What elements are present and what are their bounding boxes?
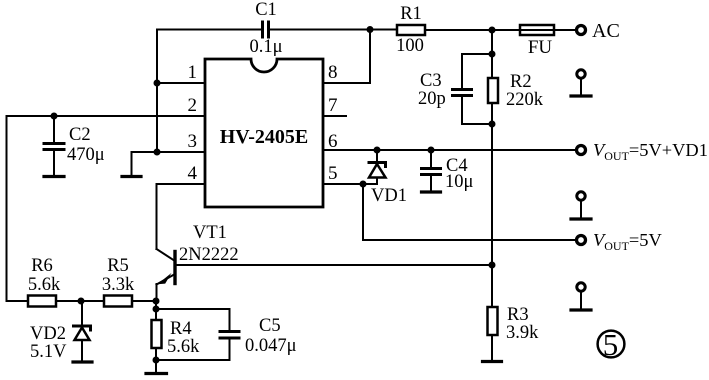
wire C3 bottom (462, 97, 492, 124)
capacitor C4 (422, 150, 441, 191)
svg-text:7: 7 (328, 95, 338, 116)
wire 5V rail down (363, 184, 575, 240)
junction pin1 (154, 80, 161, 87)
svg-text:0.047μ: 0.047μ (245, 336, 297, 356)
svg-text:3.9k: 3.9k (506, 323, 539, 343)
resistor R5 (104, 296, 132, 307)
svg-text:8: 8 (328, 62, 338, 83)
junction R1 wire / R2 rail (489, 27, 496, 34)
svg-text:4: 4 (188, 163, 198, 184)
capacitor C2 (44, 116, 64, 175)
svg-text:C3: C3 (420, 71, 442, 91)
fuse FU (520, 25, 554, 35)
wire top from rail to C1 left plate (157, 29, 260, 31)
wire R2 bottom lead (491, 103, 493, 124)
wire R5 to emitter (132, 300, 156, 302)
wire R3 bottom lead (491, 335, 493, 360)
wire pin8 rail (323, 30, 370, 84)
wire pin4 (157, 184, 206, 249)
svg-text:5: 5 (328, 163, 338, 184)
capacitor C3 (453, 90, 472, 96)
svg-text:R5: R5 (107, 256, 129, 276)
resistor R4 (152, 320, 162, 348)
junction C2 top (51, 113, 58, 120)
svg-text:R6: R6 (31, 256, 53, 276)
wire R4 ground lead (155, 360, 157, 373)
ground C4 (422, 190, 441, 193)
wire left rail (7, 116, 29, 301)
svg-text:2N2222: 2N2222 (179, 245, 239, 265)
junction base wire / R3 rail (489, 262, 496, 269)
wire base to R3 rail (176, 264, 492, 266)
figure number 5 circle (598, 331, 625, 358)
svg-text:VD2: VD2 (30, 324, 66, 344)
junction pin5 / 5V rail (360, 181, 367, 188)
terminal jack upper (571, 70, 591, 96)
ground C2 (44, 175, 64, 178)
svg-text:R4: R4 (170, 319, 192, 339)
svg-text:3: 3 (188, 131, 198, 152)
resistor R1 (397, 25, 425, 35)
svg-text:2: 2 (188, 95, 198, 116)
wire pin7 stub (323, 115, 346, 117)
diode VD1 zener (369, 150, 386, 184)
wire C1 right plate to R1 (270, 29, 397, 31)
svg-text:5: 5 (603, 327, 619, 362)
svg-text:470μ: 470μ (67, 145, 105, 165)
wire C5 stub (156, 309, 230, 330)
junction C4 top (428, 147, 435, 154)
junction top wire / pin8 rail (367, 26, 374, 33)
junction pin3 (154, 149, 161, 156)
junction R4 bottom (153, 357, 160, 364)
wire R2 top lead (491, 54, 493, 78)
svg-text:5.6k: 5.6k (28, 275, 61, 295)
wire C3 branch (462, 54, 492, 88)
svg-text:C1: C1 (255, 0, 277, 20)
junction emitter/R5/R4 (153, 298, 160, 305)
wire pin2 (7, 115, 206, 117)
svg-text:5.1V: 5.1V (30, 342, 67, 362)
svg-text:VD1: VD1 (371, 186, 407, 206)
terminal VOUT=5V+VD1 (577, 146, 586, 155)
svg-text:100: 100 (396, 36, 424, 56)
svg-text:0.1μ: 0.1μ (249, 37, 282, 57)
wire emitter junction down through R4 (155, 301, 157, 320)
wire pin5 (323, 183, 377, 185)
resistor R2 (488, 78, 498, 103)
resistor R6 (28, 296, 56, 307)
ground R3 (483, 360, 502, 363)
transistor VT1 (157, 249, 176, 301)
wire R3 top lead (491, 265, 493, 307)
op-amp U1 HV-2405E IC body (205, 59, 323, 207)
terminal jack middle (571, 192, 591, 219)
wire pin1 (157, 82, 205, 84)
junction VD2 (78, 298, 85, 305)
junction C5 stub (153, 306, 160, 313)
wire rail pins 1-3 (156, 30, 158, 153)
wire C3/R2 rail top (491, 30, 493, 54)
junction VD1 top (374, 147, 381, 154)
svg-text:5.6k: 5.6k (167, 337, 200, 357)
svg-text:220k: 220k (506, 90, 544, 110)
diode VD2 zener (74, 301, 91, 361)
wire pin3 (157, 151, 205, 153)
svg-text:AC: AC (592, 20, 620, 42)
svg-text:R2: R2 (510, 72, 532, 92)
wire R4 bottom (155, 348, 157, 360)
junction C3/R2 bottom (489, 121, 496, 128)
ground R4 (146, 372, 167, 375)
ground at pin3 (122, 175, 141, 178)
wire ground stub at pin3 (132, 152, 158, 175)
ground VD2 (73, 360, 92, 363)
svg-text:C2: C2 (69, 125, 91, 145)
capacitor C5 (220, 332, 239, 339)
svg-text:3.3k: 3.3k (102, 275, 135, 295)
svg-text:HV-2405E: HV-2405E (220, 126, 309, 148)
svg-text:1: 1 (188, 62, 198, 83)
svg-text:C5: C5 (259, 316, 281, 336)
svg-text:R1: R1 (400, 4, 422, 24)
wire rail down to R3 junction (491, 124, 493, 265)
junction C3/R2 top (489, 51, 496, 58)
svg-text:R3: R3 (507, 305, 529, 325)
wire fuse to AC terminal (554, 29, 575, 31)
wire R1 to fuse (425, 29, 520, 31)
resistor R3 (488, 307, 498, 335)
svg-text:10μ: 10μ (445, 172, 474, 192)
terminal jack lower (571, 283, 591, 310)
svg-text:6: 6 (328, 131, 338, 152)
svg-text:20p: 20p (418, 89, 446, 109)
wire C5 bottom (156, 339, 230, 360)
terminal VOUT=5V (577, 236, 586, 245)
svg-text:FU: FU (528, 37, 553, 58)
svg-text:VT1: VT1 (193, 223, 227, 243)
wire R6 to R5 (56, 300, 104, 302)
wire pin6 to VOUT+VD1 terminal (323, 149, 575, 151)
terminal AC (577, 26, 586, 35)
capacitor C1 (263, 22, 269, 37)
